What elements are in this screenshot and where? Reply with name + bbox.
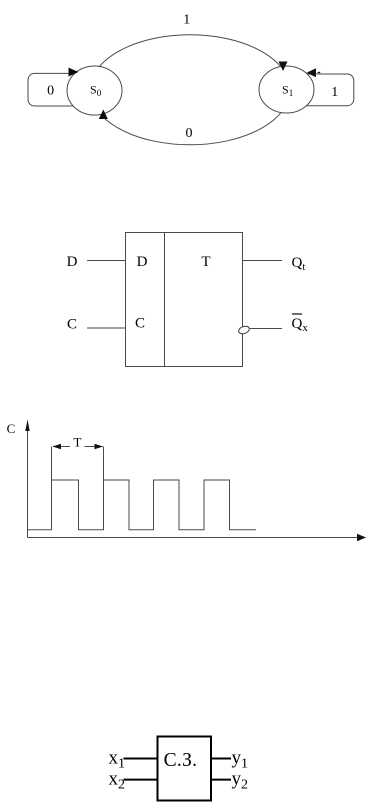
svg-text:С.З.: С.З. xyxy=(164,750,198,771)
arrowhead self-loop into S0 xyxy=(69,68,79,77)
wire input x2 xyxy=(124,779,158,781)
arrowhead self-loop into S1 xyxy=(307,68,321,77)
label 0 in S0 self-loop xyxy=(47,84,54,99)
svg-text:Qt: Qt xyxy=(292,255,306,273)
pin label C outer xyxy=(67,317,77,333)
pin label C inner xyxy=(135,316,145,332)
state label S0 xyxy=(90,83,102,99)
label 1 on top transition xyxy=(183,13,190,28)
timing diagram y axis xyxy=(25,420,29,538)
self-loop box at S1 (input 1) xyxy=(300,74,354,106)
axis label C xyxy=(7,421,16,436)
pin label Qx inverted xyxy=(292,314,309,334)
label 0 on bottom transition xyxy=(186,126,193,141)
svg-text:1: 1 xyxy=(183,13,190,28)
wire output Qt xyxy=(243,260,283,262)
wire input C xyxy=(87,327,126,329)
period dimension right arrow xyxy=(85,444,104,449)
flip-flop divider line xyxy=(164,233,166,367)
label T period xyxy=(74,435,82,450)
svg-text:0: 0 xyxy=(186,126,193,141)
pin label D inner xyxy=(137,254,148,270)
self-loop box at S0 (input 0) xyxy=(28,73,82,106)
svg-text:Qx: Qx xyxy=(292,316,309,334)
state S0 circle xyxy=(67,66,122,115)
svg-text:T: T xyxy=(201,254,210,270)
wire input x1 xyxy=(124,758,158,760)
svg-text:D: D xyxy=(137,254,148,270)
timing diagram x axis xyxy=(28,534,367,541)
clock waveform xyxy=(28,480,257,530)
wire output y1 xyxy=(211,758,231,760)
block label C.3. xyxy=(164,750,198,771)
svg-text:x2: x2 xyxy=(109,769,126,793)
label 1 in S1 self-loop xyxy=(331,85,338,100)
flip-flop body xyxy=(126,233,243,367)
svg-text:T: T xyxy=(74,435,82,450)
wire input D xyxy=(87,260,126,262)
wire output Qx xyxy=(250,328,282,330)
inversion bubble on Qx xyxy=(238,325,251,335)
pin label y1 xyxy=(232,748,249,772)
pin label x1 xyxy=(109,748,126,772)
pin label Qt xyxy=(292,255,306,273)
period riser line 2 xyxy=(103,447,105,481)
state label S1 xyxy=(282,83,293,99)
arrowhead bottom transition into S0 xyxy=(99,110,108,120)
svg-text:1: 1 xyxy=(331,85,338,100)
pin label y2 xyxy=(232,769,249,793)
transition ellipse between S0 and S1 xyxy=(90,35,290,145)
combinational block C.3. body xyxy=(158,737,212,801)
pin label D outer xyxy=(67,254,78,270)
svg-text:C: C xyxy=(7,421,16,436)
wire output y2 xyxy=(211,779,231,781)
svg-text:0: 0 xyxy=(47,84,54,99)
svg-text:y2: y2 xyxy=(232,769,249,793)
label T flip-flop type xyxy=(201,254,210,270)
period riser line 1 xyxy=(51,447,53,481)
arrowhead top transition into S1 xyxy=(279,62,288,72)
state S1 circle xyxy=(259,66,314,113)
period dimension left arrow xyxy=(53,444,71,449)
svg-text:C: C xyxy=(67,317,77,333)
svg-text:D: D xyxy=(67,254,78,270)
svg-text:C: C xyxy=(135,316,145,332)
pin label x2 xyxy=(109,769,126,793)
